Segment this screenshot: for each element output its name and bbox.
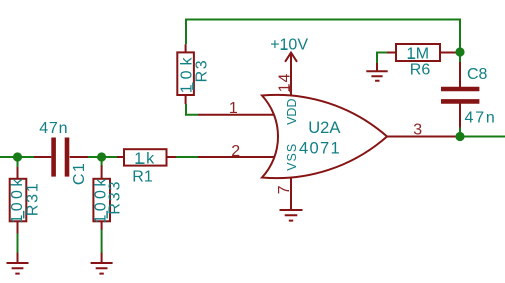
svg-text:1: 1 — [229, 100, 238, 117]
serif of 1 in value 100k R33 — [106, 211, 108, 219]
ground at R6 — [366, 63, 387, 81]
svg-text:U2A: U2A — [308, 119, 340, 137]
node B junction — [97, 152, 106, 161]
node D junction (output) — [455, 132, 464, 141]
wire R1 to pin2 — [176, 156, 199, 158]
serif of 1 in value 100k R31 — [23, 211, 25, 219]
serif of 1 in label +10V — [281, 48, 288, 50]
wire R31 to ground — [17, 232, 19, 253]
ground under R33 — [91, 253, 113, 274]
serif of 1 in pin number 14 — [289, 86, 291, 92]
svg-text:47n: 47n — [39, 120, 68, 137]
wire R33 to ground — [101, 229, 103, 254]
svg-text:4071: 4071 — [299, 139, 341, 157]
wire C1 right to R1 — [88, 156, 117, 158]
wire C8 bottom to output node — [459, 127, 461, 136]
resistor R31 — [10, 167, 27, 234]
svg-text:R1: R1 — [132, 168, 153, 185]
node A junction — [13, 152, 22, 161]
pin 2 wire stub — [198, 156, 277, 158]
serif of 1 in value 10k — [192, 83, 194, 90]
svg-text:C1: C1 — [71, 162, 88, 185]
wire node B to R33 — [101, 157, 103, 167]
op-amp U2A gate body — [262, 95, 387, 178]
wire R6 left to ground — [377, 53, 387, 64]
capacitor C1 — [34, 138, 88, 177]
ground under R31 — [7, 253, 29, 274]
svg-text:7: 7 — [276, 185, 293, 194]
power +10V — [285, 53, 297, 97]
serif of 1 in value 1k — [136, 162, 145, 164]
ground at pin 7 — [280, 210, 303, 221]
wire R3 bottom to pin1 — [186, 104, 198, 115]
svg-text:VDD: VDD — [285, 98, 299, 124]
svg-text:+10V: +10V — [270, 37, 308, 54]
pin 7 wire stub — [290, 176, 292, 210]
svg-text:1k: 1k — [134, 151, 157, 168]
wire node A to R31 — [17, 157, 19, 168]
svg-text:14: 14 — [277, 73, 294, 92]
svg-text:R6: R6 — [410, 62, 431, 79]
svg-text:R31: R31 — [24, 181, 41, 216]
resistor R1 — [117, 149, 176, 165]
serif of 1 in value 1M — [408, 57, 415, 59]
svg-text:3: 3 — [413, 122, 422, 139]
svg-text:47n: 47n — [465, 110, 497, 127]
svg-text:R3: R3 — [194, 59, 211, 82]
pin 1 wire stub — [198, 114, 277, 116]
capacitor C8 — [441, 62, 479, 128]
wire left input rail — [0, 156, 34, 158]
svg-text:C8: C8 — [467, 66, 488, 83]
wire top feedback rail — [186, 20, 460, 49]
wire output rail — [460, 136, 505, 138]
svg-text:1M: 1M — [406, 46, 429, 63]
node C junction (R6/C8) — [455, 47, 464, 56]
resistor R6 — [387, 44, 456, 61]
wire junction to C8 top — [459, 52, 461, 63]
svg-text:VSS: VSS — [285, 143, 299, 171]
pin 3 wire stub — [385, 136, 456, 138]
resistor R3 — [177, 44, 194, 104]
svg-text:R33: R33 — [107, 180, 124, 215]
resistor R33 — [93, 166, 110, 230]
svg-text:2: 2 — [231, 143, 240, 160]
